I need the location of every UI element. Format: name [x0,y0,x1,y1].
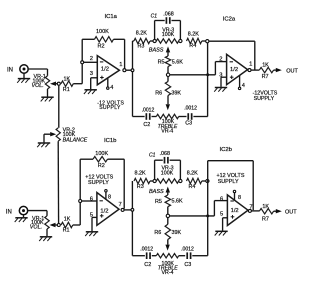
svg-text:100K: 100K [162,32,175,38]
svg-text:SUPPLY: SUPPLY [254,96,275,102]
svg-text:IC2b: IC2b [220,147,233,153]
svg-text:C3: C3 [185,120,192,126]
svg-text:39K: 39K [171,91,181,97]
svg-text:6: 6 [220,196,223,202]
svg-text:BASS: BASS [149,189,164,195]
svg-text:8.2K: 8.2K [135,171,146,177]
svg-text:2: 2 [219,56,222,62]
svg-text:1K: 1K [64,217,71,223]
svg-text:1K: 1K [64,76,71,82]
svg-text:.068: .068 [160,151,171,157]
svg-text:39K: 39K [172,230,182,236]
svg-text:100K: 100K [95,151,108,157]
svg-text:4: 4 [110,85,113,91]
svg-text:R1: R1 [63,228,70,234]
svg-text:R2: R2 [98,44,105,50]
svg-text:R7: R7 [262,74,269,80]
svg-text:7: 7 [119,202,122,208]
svg-text:IC2a: IC2a [223,16,236,22]
svg-text:BALANCE: BALANCE [63,138,88,144]
svg-text:5.6K: 5.6K [172,59,183,65]
svg-text:BASS: BASS [149,48,164,54]
svg-text:100K: 100K [161,170,174,176]
svg-text:.0012: .0012 [181,246,194,252]
svg-text:C3: C3 [184,262,191,268]
svg-text:R3: R3 [138,44,145,50]
svg-text:SUPPLY: SUPPLY [218,179,239,185]
svg-text:R6: R6 [154,230,161,236]
svg-text:1K: 1K [262,63,269,69]
svg-text:VR-4: VR-4 [161,128,173,134]
svg-text:C1: C1 [149,153,156,159]
svg-text:IN: IN [7,68,13,74]
svg-text:IN: IN [6,209,12,215]
svg-text:C2: C2 [144,262,151,268]
svg-text:1/2: 1/2 [231,208,239,214]
svg-text:R7: R7 [262,217,269,223]
svg-text:8: 8 [108,194,111,200]
svg-text:8.2K: 8.2K [188,31,199,37]
svg-text:R2: R2 [98,163,105,169]
svg-text:8.2K: 8.2K [136,30,147,36]
svg-text:SUPPLY: SUPPLY [88,180,109,186]
svg-text:OUT: OUT [286,68,298,74]
svg-text:VR-4: VR-4 [162,270,174,276]
svg-text:6: 6 [90,197,93,203]
svg-text:8.2K: 8.2K [187,171,198,177]
svg-text:R6: R6 [155,90,162,96]
svg-text:IC1a: IC1a [105,14,118,20]
svg-text:1: 1 [249,61,252,67]
svg-text:8: 8 [238,195,241,201]
svg-text:1/2: 1/2 [100,208,108,214]
svg-text:SUPPLY: SUPPLY [99,105,121,111]
svg-text:R5: R5 [155,199,162,205]
svg-text:.0012: .0012 [184,105,197,111]
svg-text:5.6K: 5.6K [172,199,183,205]
svg-text:R4: R4 [189,184,196,190]
svg-text:3: 3 [90,71,93,77]
svg-text:R4: R4 [189,43,196,49]
svg-text:R3: R3 [137,184,144,190]
svg-text:1/2: 1/2 [230,67,238,73]
svg-text:OUT: OUT [285,209,297,215]
svg-text:C2: C2 [143,122,150,128]
svg-text:C1: C1 [151,13,158,19]
svg-text:2: 2 [90,56,93,62]
svg-text:4: 4 [242,83,245,89]
svg-text:.068: .068 [163,12,174,18]
svg-text:R5: R5 [158,59,165,65]
svg-text:100K: 100K [96,29,109,35]
svg-text:1K: 1K [262,204,269,210]
svg-text:R1: R1 [63,87,70,93]
svg-text:5: 5 [220,212,223,218]
svg-text:VOL.: VOL. [32,83,44,89]
svg-text:IC1b: IC1b [104,138,117,144]
svg-text:.0012: .0012 [142,107,155,113]
svg-text:VOL.: VOL. [30,225,42,231]
svg-text:1: 1 [119,62,122,68]
svg-text:.0012: .0012 [140,246,153,252]
svg-text:1/2: 1/2 [101,67,109,73]
